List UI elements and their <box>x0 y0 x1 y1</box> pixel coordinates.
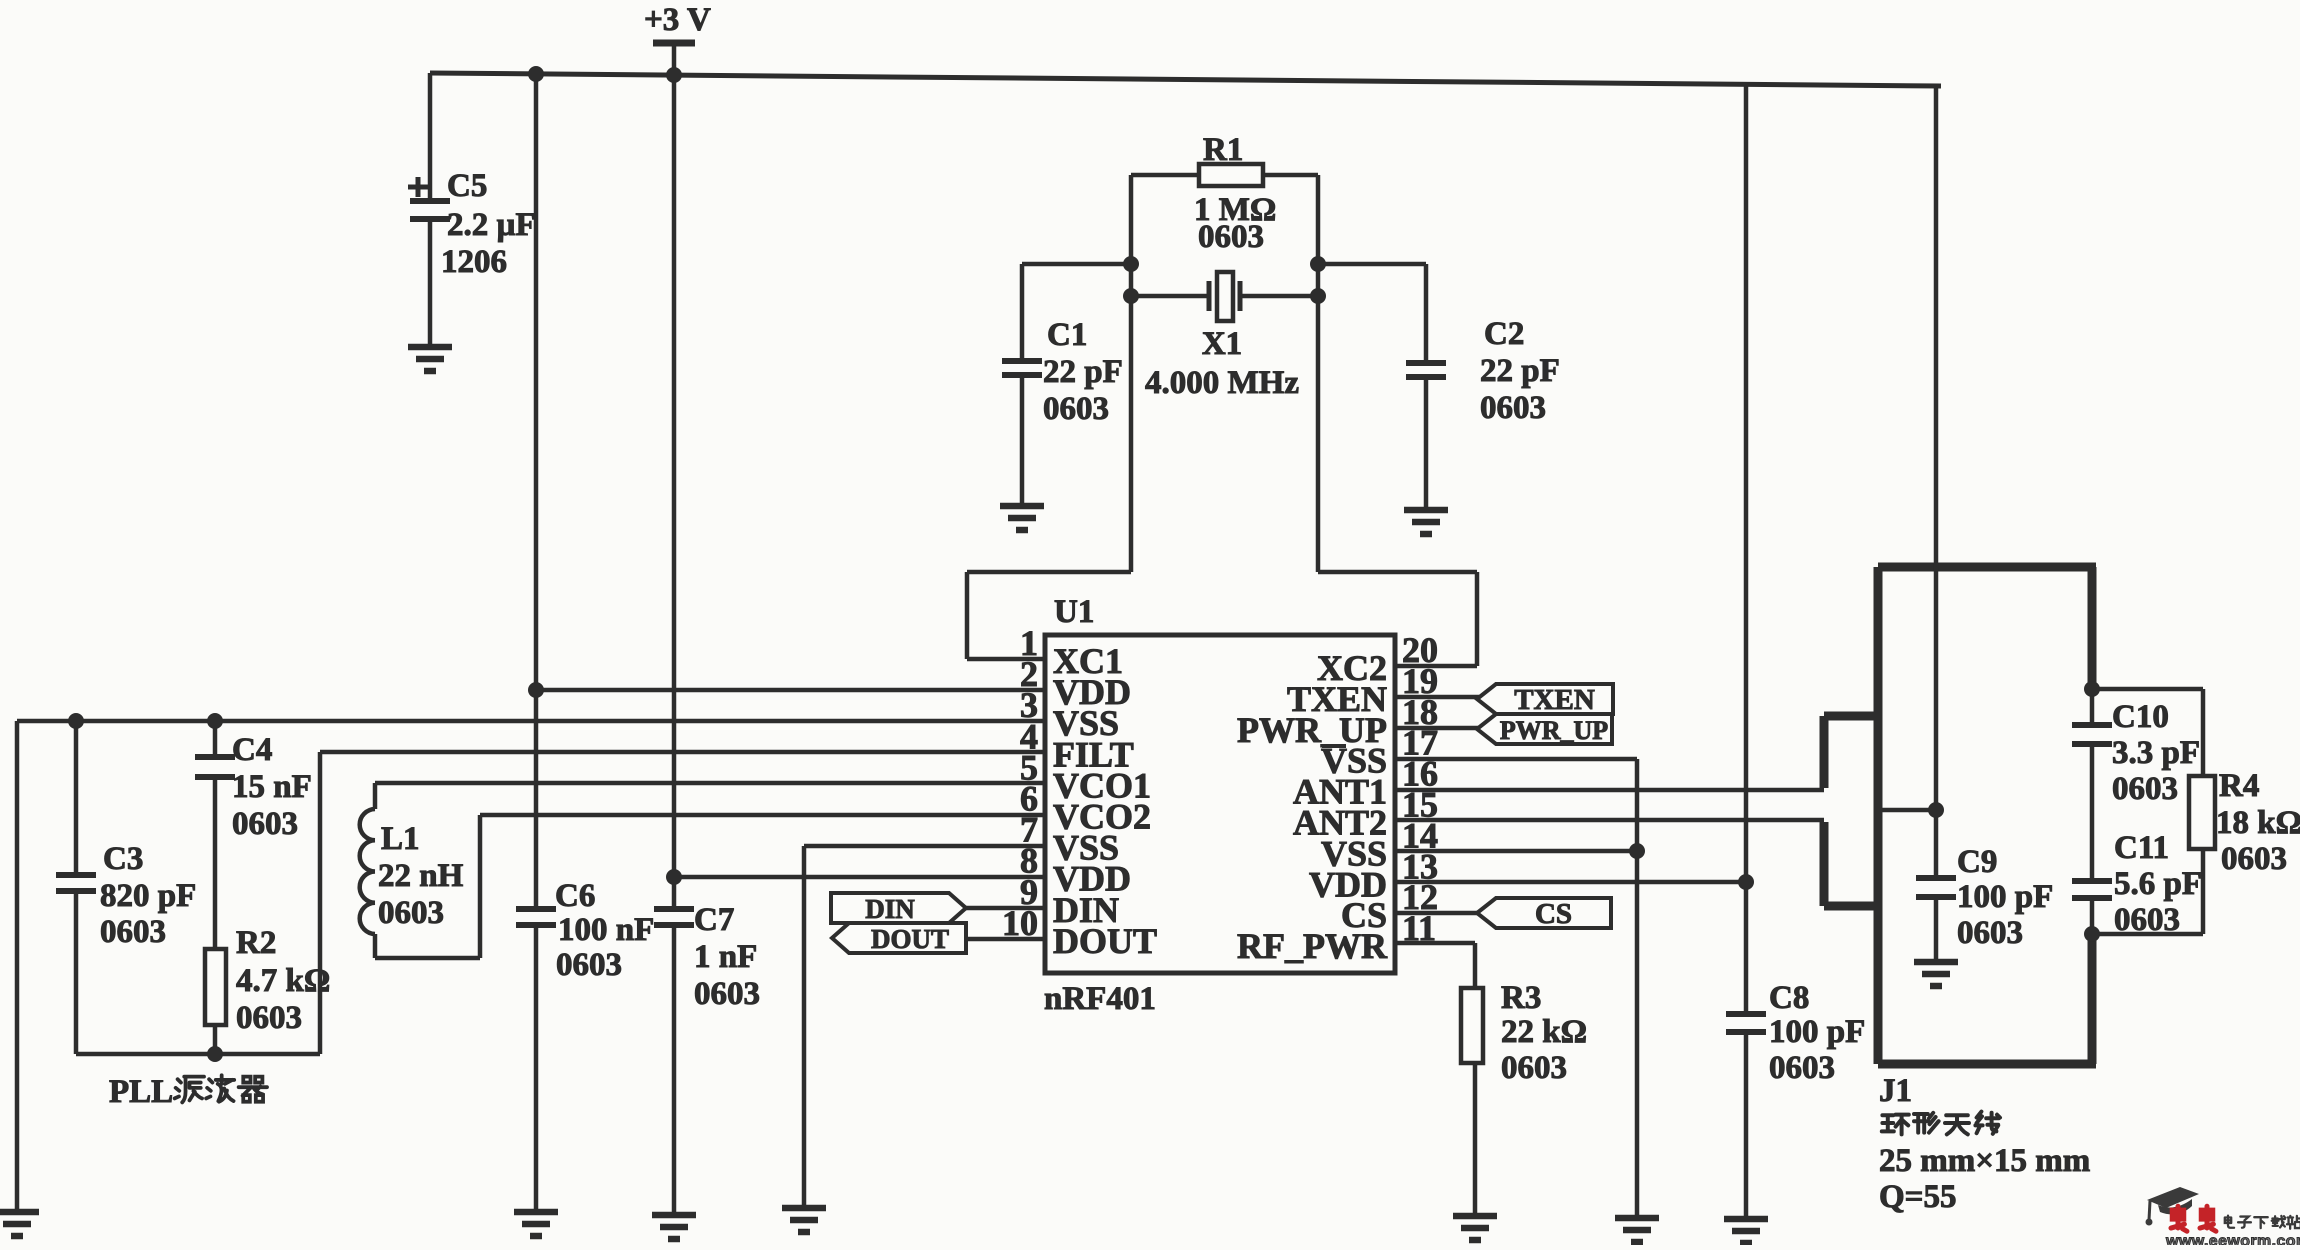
svg-text:2.2 µF: 2.2 µF <box>447 207 536 243</box>
svg-text:www.eeworm.com: www.eeworm.com <box>2165 1233 2300 1245</box>
svg-text:0603: 0603 <box>694 976 760 1012</box>
svg-text:5.6 pF: 5.6 pF <box>2114 866 2202 902</box>
svg-text:15 nF: 15 nF <box>232 769 312 805</box>
svg-text:R1: R1 <box>1203 132 1243 168</box>
svg-text:0603: 0603 <box>2114 902 2180 938</box>
svg-text:100 nF: 100 nF <box>558 912 654 948</box>
svg-text:C6: C6 <box>555 878 595 914</box>
svg-text:0603: 0603 <box>2112 771 2178 807</box>
svg-text:1206: 1206 <box>441 244 507 280</box>
svg-text:4.000 MHz: 4.000 MHz <box>1145 365 1299 401</box>
svg-text:C10: C10 <box>2112 699 2169 735</box>
svg-text:0603: 0603 <box>1198 219 1264 255</box>
svg-text:X1: X1 <box>1202 326 1242 362</box>
svg-text:22 nH: 22 nH <box>378 858 464 894</box>
svg-text:1 nF: 1 nF <box>694 939 757 975</box>
svg-text:0603: 0603 <box>378 895 444 931</box>
svg-text:C4: C4 <box>232 732 272 768</box>
svg-text:C8: C8 <box>1769 980 1809 1016</box>
svg-text:0603: 0603 <box>1957 915 2023 951</box>
svg-text:C5: C5 <box>447 168 487 204</box>
svg-text:22 kΩ: 22 kΩ <box>1501 1014 1587 1050</box>
svg-text:+3 V: +3 V <box>644 2 711 38</box>
svg-text:C3: C3 <box>103 841 143 877</box>
svg-text:0603: 0603 <box>1769 1050 1835 1086</box>
svg-text:0603: 0603 <box>1043 391 1109 427</box>
svg-text:0603: 0603 <box>556 947 622 983</box>
svg-text:RF_PWR: RF_PWR <box>1237 926 1388 966</box>
svg-text:100 pF: 100 pF <box>1957 879 2053 915</box>
svg-text:DOUT: DOUT <box>1053 921 1157 961</box>
svg-text:PLL: PLL <box>109 1074 173 1110</box>
svg-text:L1: L1 <box>381 821 420 857</box>
svg-text:R3: R3 <box>1501 980 1541 1016</box>
svg-text:C2: C2 <box>1484 316 1524 352</box>
svg-text:25 mm×15 mm: 25 mm×15 mm <box>1879 1143 2090 1179</box>
svg-text:820 pF: 820 pF <box>100 878 196 914</box>
svg-text:C11: C11 <box>2114 830 2169 866</box>
svg-text:C1: C1 <box>1047 317 1087 353</box>
svg-text:C9: C9 <box>1957 844 1997 880</box>
svg-text:0603: 0603 <box>232 806 298 842</box>
svg-text:DIN: DIN <box>865 894 915 924</box>
svg-text:0603: 0603 <box>1480 390 1546 426</box>
svg-text:J1: J1 <box>1879 1073 1912 1109</box>
svg-text:Q=55: Q=55 <box>1879 1179 1956 1215</box>
svg-text:0603: 0603 <box>1501 1050 1567 1086</box>
svg-text:CS: CS <box>1535 898 1572 930</box>
svg-text:22 pF: 22 pF <box>1043 354 1123 390</box>
svg-text:18 kΩ: 18 kΩ <box>2216 805 2300 841</box>
svg-text:3.3 pF: 3.3 pF <box>2112 735 2200 771</box>
svg-text:100 pF: 100 pF <box>1769 1014 1865 1050</box>
svg-text:U1: U1 <box>1054 594 1094 630</box>
svg-text:TXEN: TXEN <box>1514 684 1595 716</box>
svg-text:nRF401: nRF401 <box>1044 981 1156 1017</box>
svg-text:10: 10 <box>1002 903 1038 943</box>
svg-text:PWR_UP: PWR_UP <box>1500 716 1608 745</box>
svg-text:R2: R2 <box>236 925 276 961</box>
svg-text:DOUT: DOUT <box>871 924 949 954</box>
svg-text:0603: 0603 <box>100 914 166 950</box>
svg-text:C7: C7 <box>694 902 734 938</box>
svg-text:0603: 0603 <box>2221 841 2287 877</box>
svg-text:0603: 0603 <box>236 1000 302 1036</box>
svg-text:R4: R4 <box>2219 768 2259 804</box>
svg-text:4.7 kΩ: 4.7 kΩ <box>236 963 330 999</box>
svg-text:11: 11 <box>1402 908 1436 948</box>
svg-text:22 pF: 22 pF <box>1480 353 1560 389</box>
